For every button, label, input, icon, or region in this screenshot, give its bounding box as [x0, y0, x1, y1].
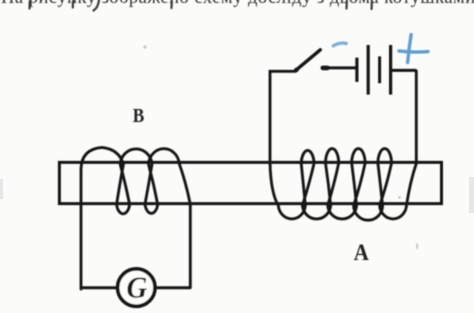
- svg-text:G: G: [126, 272, 147, 305]
- svg-text:A: A: [354, 239, 369, 265]
- svg-text:B: B: [133, 105, 145, 126]
